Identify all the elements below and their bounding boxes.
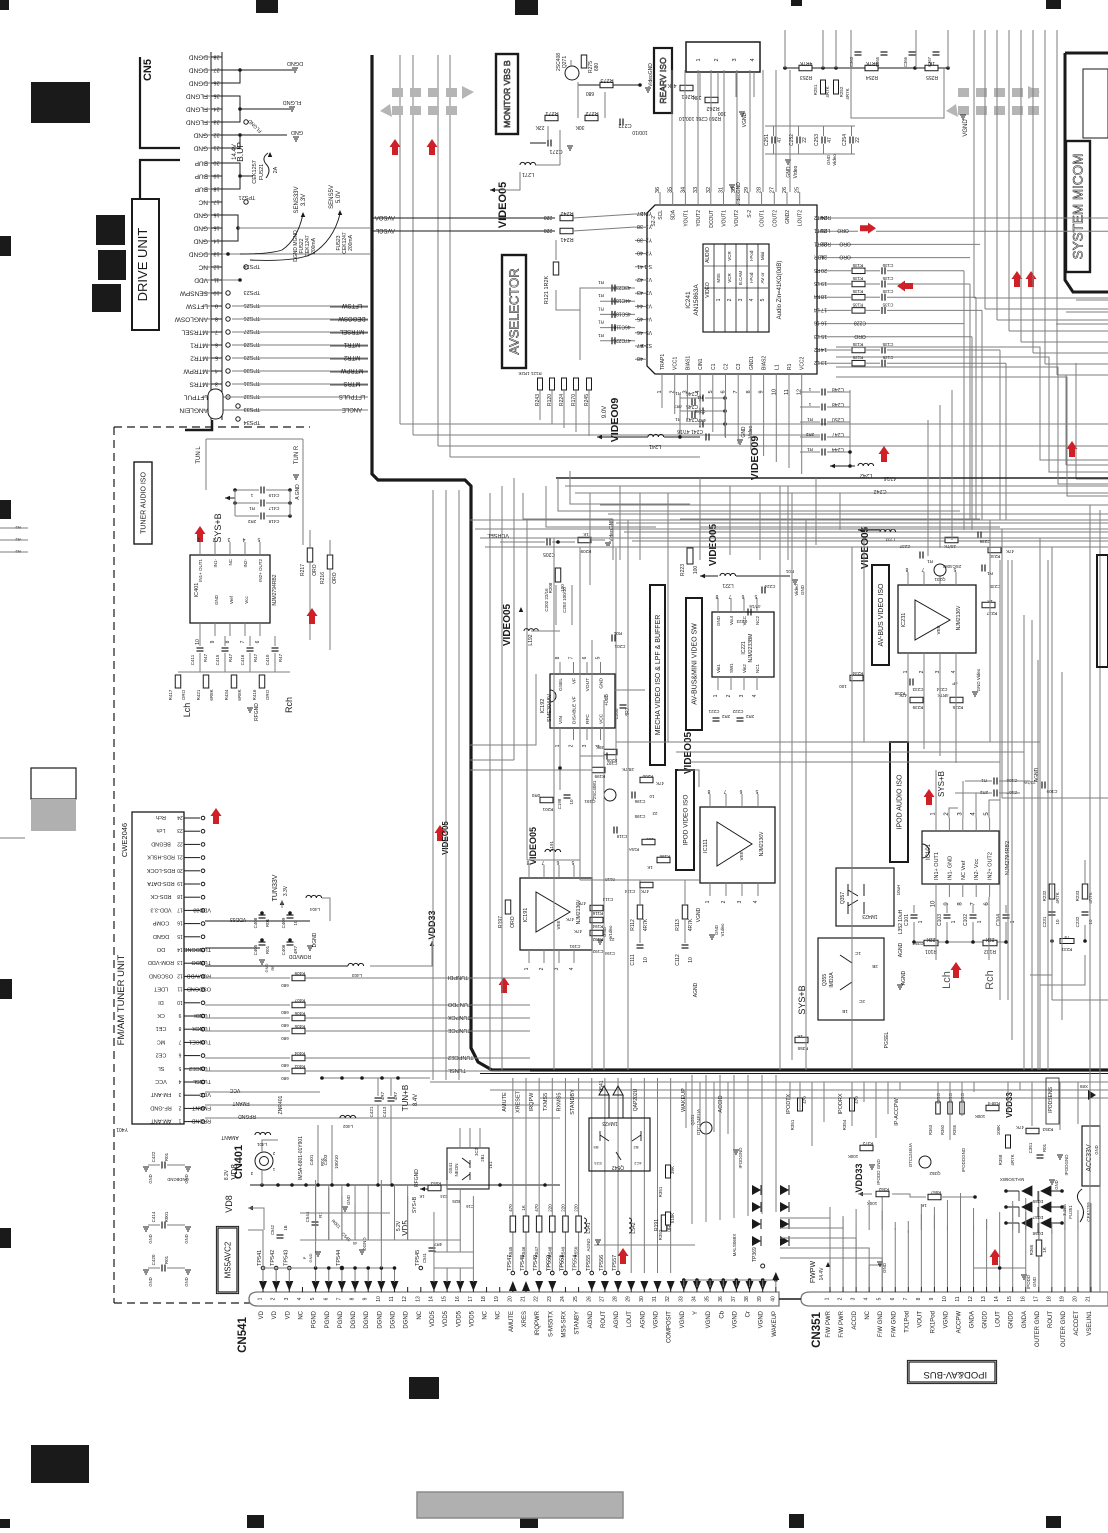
svg-text:NJM2136V: NJM2136V — [956, 605, 962, 630]
svg-text:GND: GND — [1094, 1145, 1099, 1154]
svg-text:4R7K: 4R7K — [688, 918, 694, 931]
svg-text:1M#23: 1M#23 — [602, 1120, 618, 1126]
svg-text:26: 26 — [586, 1296, 592, 1302]
svg-text:11: 11 — [177, 986, 182, 992]
svg-text:IPOD&AV-BUS: IPOD&AV-BUS — [923, 1369, 987, 1380]
svg-text:C196: C196 — [634, 799, 645, 804]
svg-text:23: 23 — [177, 827, 183, 833]
svg-text:18: 18 — [177, 893, 183, 899]
svg-text:4: 4 — [242, 536, 245, 542]
svg-text:13: 13 — [177, 959, 183, 965]
svg-text:R1: R1 — [927, 559, 933, 564]
svg-text:Vout: Vout — [729, 615, 734, 625]
svg-text:AUDIO: AUDIO — [705, 247, 711, 263]
svg-text:VIDEO05: VIDEO05 — [683, 731, 694, 774]
svg-text:GND2: GND2 — [785, 210, 791, 224]
svg-text:38: 38 — [744, 1296, 750, 1302]
svg-text:RF: RF — [270, 965, 275, 971]
svg-text:220: 220 — [560, 1204, 565, 1212]
svg-text:FM/AM TUNER UNIT: FM/AM TUNER UNIT — [116, 955, 127, 1046]
svg-text:VD: VD — [272, 1310, 278, 1319]
svg-text:Q231: Q231 — [934, 577, 946, 582]
svg-text:33: 33 — [678, 1296, 684, 1302]
svg-text:10: 10 — [569, 799, 574, 805]
svg-text:C411: C411 — [190, 654, 195, 665]
svg-text:26: 26 — [213, 80, 219, 86]
svg-text:17: 17 — [468, 1296, 474, 1302]
svg-text:R47: R47 — [228, 653, 233, 662]
svg-text:4R7: 4R7 — [380, 1091, 385, 1100]
svg-text:2: 2 — [569, 744, 575, 747]
svg-text:C205: C205 — [543, 551, 555, 557]
svg-text:6: 6 — [739, 788, 742, 794]
svg-text:ORO: ORO — [839, 254, 851, 260]
svg-text:4R7: 4R7 — [697, 418, 706, 423]
svg-text:V1: V1 — [646, 276, 652, 282]
svg-text:XRES: XRES — [522, 1311, 528, 1327]
svg-text:L192: L192 — [528, 634, 534, 645]
svg-text:NC Vref: NC Vref — [961, 860, 967, 880]
svg-text:7: 7 — [903, 1297, 909, 1300]
svg-text:5: 5 — [215, 355, 218, 361]
svg-text:26: 26 — [782, 187, 788, 193]
svg-text:VEE: VEE — [936, 625, 941, 634]
svg-text:1: 1 — [524, 967, 530, 970]
svg-text:13: 13 — [821, 359, 827, 365]
svg-text:C254: C254 — [842, 134, 848, 146]
svg-text:2: 2 — [714, 58, 720, 61]
svg-text:GNDD: GNDD — [983, 1310, 989, 1328]
svg-text:17: 17 — [821, 306, 827, 312]
svg-text:TP552: TP552 — [546, 1255, 552, 1271]
svg-text:CEK1257: CEK1257 — [252, 160, 258, 184]
svg-text:C135: C135 — [882, 263, 893, 268]
svg-text:ACCID: ACCID — [718, 1095, 724, 1112]
svg-text:VDD33: VDD33 — [427, 910, 437, 939]
svg-text:R409: R409 — [294, 971, 305, 976]
svg-text:10: 10 — [643, 957, 649, 963]
svg-text:TPS33: TPS33 — [244, 406, 261, 412]
svg-text:8: 8 — [555, 656, 561, 659]
svg-text:GND: GND — [148, 1277, 153, 1286]
svg-text:VCR: VCR — [727, 251, 732, 261]
svg-text:1K: 1K — [583, 532, 589, 537]
svg-text:1B: 1B — [283, 1225, 288, 1230]
svg-text:2R2: 2R2 — [745, 714, 754, 719]
svg-text:DGND: DGND — [287, 60, 303, 66]
svg-text:GND1: GND1 — [749, 356, 755, 370]
svg-text:C135: C135 — [882, 302, 893, 307]
svg-text:C241 47/16: C241 47/16 — [677, 428, 703, 434]
svg-text:38: 38 — [637, 223, 643, 229]
svg-text:ANGLE: ANGLE — [342, 406, 362, 412]
svg-text:10: 10 — [293, 920, 298, 926]
svg-text:VD8: VD8 — [230, 1164, 239, 1180]
svg-text:3C2: 3C2 — [474, 1147, 479, 1155]
svg-text:3: 3 — [582, 744, 588, 747]
svg-text:1K: 1K — [921, 1203, 927, 1208]
svg-text:LFTPULS: LFTPULS — [339, 393, 365, 399]
svg-text:ACCPW: ACCPW — [957, 1311, 963, 1334]
svg-text:WAKEUP: WAKEUP — [772, 1311, 778, 1337]
svg-text:21: 21 — [1086, 1296, 1092, 1302]
svg-text:VF: VF — [572, 678, 578, 684]
svg-text:VOUT2: VOUT2 — [734, 210, 740, 227]
svg-text:41: 41 — [637, 263, 643, 269]
svg-text:6: 6 — [215, 342, 218, 348]
svg-text:R224: R224 — [559, 394, 565, 406]
svg-text:680: 680 — [281, 1063, 289, 1068]
svg-text:8: 8 — [178, 1025, 181, 1031]
svg-text:FLGND: FLGND — [283, 99, 302, 105]
svg-text:R354: R354 — [842, 1119, 847, 1130]
svg-text:13: 13 — [415, 1296, 421, 1302]
svg-text:L271: L271 — [522, 171, 534, 177]
svg-text:Q357: Q357 — [840, 892, 846, 904]
svg-text:TP548: TP548 — [520, 1255, 526, 1271]
svg-text:GNDD: GNDD — [1009, 1310, 1015, 1328]
svg-text:20: 20 — [213, 160, 219, 166]
svg-text:1: 1 — [716, 298, 722, 301]
svg-text:7: 7 — [723, 788, 726, 794]
svg-text:VEE: VEE — [739, 851, 744, 860]
svg-text:4R7K: 4R7K — [1055, 892, 1060, 903]
svg-text:R351: R351 — [658, 1186, 663, 1197]
svg-text:PGND: PGND — [338, 1310, 344, 1328]
svg-text:16: 16 — [814, 320, 820, 326]
svg-text:R365: R365 — [1029, 1244, 1034, 1255]
svg-text:CE2: CE2 — [156, 1052, 167, 1058]
svg-text:680: 680 — [281, 1036, 289, 1041]
svg-text:4R7: 4R7 — [393, 1091, 398, 1100]
svg-text:SYSTEM MICOM: SYSTEM MICOM — [1071, 154, 1086, 260]
svg-text:Cb: Cb — [719, 1310, 725, 1318]
svg-text:R237: R237 — [986, 611, 997, 616]
svg-text:VDD33: VDD33 — [230, 916, 246, 922]
svg-text:Vin2: Vin2 — [742, 664, 747, 673]
svg-text:L5: L5 — [814, 280, 820, 286]
svg-text:Q352: Q352 — [929, 1171, 941, 1176]
svg-text:GND: GND — [786, 166, 792, 178]
svg-text:14: 14 — [428, 1296, 434, 1302]
svg-text:AMUTE: AMUTE — [509, 1311, 515, 1332]
svg-text:C541: C541 — [422, 1252, 427, 1263]
svg-text:R120: R120 — [547, 394, 553, 406]
svg-text:L542: L542 — [631, 1222, 637, 1233]
svg-text:L3: L3 — [814, 333, 820, 339]
svg-text:ROUT: ROUT — [1048, 1311, 1054, 1328]
svg-text:Q542: Q542 — [612, 1164, 624, 1170]
svg-text:NJM2233BM: NJM2233BM — [748, 634, 754, 663]
svg-text:5.0V: 5.0V — [336, 191, 342, 203]
svg-text:C3: C3 — [736, 363, 742, 370]
svg-text:32: 32 — [706, 187, 712, 193]
svg-text:23: 23 — [547, 1296, 553, 1302]
svg-text:19: 19 — [821, 280, 827, 286]
svg-text:R101: R101 — [925, 948, 937, 954]
svg-text:IC221: IC221 — [741, 641, 747, 655]
svg-text:DGND: DGND — [364, 1310, 370, 1328]
svg-text:22: 22 — [652, 811, 658, 816]
svg-text:2SC4081: 2SC4081 — [592, 780, 597, 799]
svg-text:13: 13 — [981, 1296, 987, 1302]
svg-text:TUNER AUDIO ISO: TUNER AUDIO ISO — [140, 472, 147, 534]
svg-text:IPODGND: IPODGND — [1064, 1154, 1069, 1176]
svg-text:ROUT2: ROUT2 — [814, 214, 831, 220]
svg-text:VCC1: VCC1 — [673, 356, 679, 370]
svg-text:VIDEO: VIDEO — [705, 282, 711, 298]
svg-text:25: 25 — [213, 93, 219, 99]
svg-text:220: 220 — [544, 214, 553, 220]
svg-text:MALS068X: MALS068X — [732, 1234, 737, 1257]
svg-text:TP553: TP553 — [559, 1255, 565, 1271]
svg-text:V2: V2 — [646, 289, 652, 295]
svg-text:R135: R135 — [852, 355, 863, 360]
svg-text:IN1+ OUT1: IN1+ OUT1 — [198, 559, 203, 582]
svg-text:DCOUT: DCOUT — [709, 210, 715, 228]
svg-text:100: 100 — [839, 684, 847, 689]
svg-text:47K: 47K — [1016, 1125, 1024, 1130]
svg-text:16: 16 — [177, 920, 183, 926]
svg-text:RDS-CK: RDS-CK — [150, 893, 171, 899]
svg-text:Video: Video — [794, 584, 799, 596]
svg-text:VGND: VGND — [759, 1310, 765, 1328]
svg-text:16: 16 — [455, 1296, 461, 1302]
svg-text:11: 11 — [214, 277, 220, 283]
svg-text:R272: R272 — [585, 110, 598, 116]
svg-text:C422: C422 — [151, 1151, 156, 1162]
svg-text:4: 4 — [753, 900, 759, 903]
svg-text:DGND: DGND — [312, 932, 318, 947]
svg-text:470: 470 — [534, 1204, 539, 1212]
svg-text:F/W PWR: F/W PWR — [826, 1310, 832, 1337]
svg-text:AMANT: AMANT — [221, 1134, 239, 1140]
svg-text:VDD5: VDD5 — [430, 1310, 436, 1327]
svg-text:R234: R234 — [852, 671, 863, 676]
svg-text:S-1: S-1 — [644, 263, 652, 269]
svg-text:TUNCE1: TUNCE1 — [189, 1038, 211, 1044]
svg-text:C417: C417 — [268, 506, 279, 511]
svg-text:R1: R1 — [598, 280, 604, 285]
svg-text:MC: MC — [157, 1038, 166, 1044]
svg-text:P: P — [302, 1256, 307, 1259]
svg-text:R273: R273 — [600, 77, 613, 83]
svg-text:FM-ANT: FM-ANT — [150, 1091, 171, 1097]
svg-text:3: 3 — [851, 1297, 857, 1300]
svg-text:Rch: Rch — [984, 970, 996, 990]
svg-text:100: 100 — [693, 566, 699, 575]
svg-text:VOUT: VOUT — [917, 1311, 923, 1328]
svg-text:R102: R102 — [984, 948, 996, 954]
svg-text:R421: R421 — [196, 689, 201, 700]
svg-text:TUNDI: TUNDI — [194, 1012, 211, 1018]
svg-text:39K: 39K — [670, 1166, 675, 1174]
svg-text:33K: 33K — [692, 94, 702, 100]
svg-text:V5: V5 — [646, 329, 652, 335]
svg-text:R233: R233 — [1075, 890, 1080, 901]
svg-text:12: 12 — [968, 1296, 974, 1302]
svg-text:32: 32 — [665, 1296, 671, 1302]
svg-text:5: 5 — [178, 1065, 181, 1071]
svg-text:100K: 100K — [975, 1114, 986, 1119]
svg-text:ROUT: ROUT — [601, 1311, 607, 1328]
svg-text:TP554: TP554 — [573, 1255, 579, 1271]
svg-text:DGND: DGND — [362, 1237, 367, 1251]
svg-text:VIDEO09: VIDEO09 — [609, 398, 621, 443]
svg-text:L241: L241 — [649, 443, 661, 449]
svg-text:R191: R191 — [654, 1219, 660, 1231]
svg-text:C194: C194 — [604, 951, 615, 956]
svg-text:TP547: TP547 — [507, 1255, 513, 1271]
svg-text:SYS+B: SYS+B — [937, 771, 946, 797]
svg-text:1: 1 — [197, 536, 200, 542]
svg-text:R351: R351 — [790, 1119, 795, 1130]
svg-text:AGND: AGND — [898, 942, 904, 957]
svg-text:L191: L191 — [549, 840, 554, 851]
svg-text:47K: 47K — [1006, 549, 1014, 554]
svg-text:R1: R1 — [598, 333, 604, 338]
svg-text:5: 5 — [257, 536, 260, 542]
svg-text:9.0V: 9.0V — [602, 406, 608, 418]
svg-text:R01: R01 — [164, 1152, 169, 1161]
svg-text:22K: 22K — [985, 936, 995, 942]
svg-text:Vcc: Vcc — [244, 596, 249, 604]
svg-text:QAP202U: QAP202U — [633, 1088, 639, 1111]
svg-text:Y1: Y1 — [646, 223, 652, 229]
svg-text:TRAP1: TRAP1 — [660, 354, 666, 370]
svg-text:L403: L403 — [351, 973, 362, 978]
svg-text:RDS-DATA: RDS-DATA — [147, 880, 175, 886]
svg-text:TUNCE2: TUNCE2 — [189, 1065, 211, 1071]
svg-text:C198: C198 — [557, 798, 562, 809]
svg-text:Cr: Cr — [746, 1311, 752, 1317]
svg-text:FWPW: FWPW — [810, 1261, 817, 1284]
svg-text:C114: C114 — [624, 889, 635, 894]
svg-text:4: 4 — [864, 1297, 870, 1300]
svg-text:6R8K: 6R8K — [237, 689, 242, 700]
svg-text:PGND: PGND — [325, 1310, 331, 1328]
svg-text:B25: B25 — [452, 1199, 460, 1204]
svg-text:R358: R358 — [998, 1154, 1003, 1165]
svg-text:6: 6 — [890, 1297, 896, 1300]
svg-text:VDD-3.3: VDD-3.3 — [150, 906, 171, 912]
svg-text:DTC1246UA: DTC1246UA — [908, 1143, 913, 1167]
svg-text:R1: R1 — [598, 306, 604, 311]
svg-text:39: 39 — [757, 1296, 763, 1302]
svg-text:Audio Zin=41KΩ(0dB): Audio Zin=41KΩ(0dB) — [777, 261, 783, 320]
svg-text:28: 28 — [213, 54, 219, 60]
svg-text:TPS14: TPS14 — [244, 263, 261, 269]
svg-text:LOUT1: LOUT1 — [814, 227, 830, 233]
svg-text:VideoGND: VideoGND — [648, 63, 654, 87]
svg-text:17: 17 — [213, 199, 219, 205]
svg-text:R135: R135 — [852, 289, 863, 294]
svg-text:C231: C231 — [1042, 916, 1047, 927]
svg-text:R245: R245 — [584, 394, 590, 406]
svg-text:2: 2 — [539, 967, 545, 970]
svg-text:NC2: NC2 — [755, 616, 760, 625]
svg-text:VD: VD — [285, 1310, 291, 1319]
svg-text:S-MS5TX: S-MS5TX — [548, 1311, 554, 1337]
svg-text:680: 680 — [586, 90, 595, 96]
svg-text:IC231: IC231 — [901, 613, 907, 628]
svg-text:VDD33: VDD33 — [854, 1163, 864, 1192]
svg-text:C103: C103 — [937, 914, 943, 926]
svg-text:27: 27 — [769, 187, 775, 193]
svg-text:GND: GND — [148, 1234, 153, 1243]
svg-text:IPODDGND: IPODDGND — [961, 1147, 966, 1172]
svg-text:IRQPWR: IRQPWR — [535, 1310, 541, 1335]
svg-text:22: 22 — [855, 137, 861, 143]
svg-text:C351: C351 — [1028, 1142, 1033, 1153]
svg-text:9: 9 — [210, 640, 216, 643]
svg-text:11: 11 — [389, 1296, 395, 1301]
svg-text:2C: 2C — [858, 999, 865, 1004]
svg-text:IRQPW: IRQPW — [529, 1092, 535, 1111]
svg-text:45: 45 — [637, 316, 643, 322]
svg-text:1: 1 — [951, 920, 957, 923]
svg-text:TUN33V: TUN33V — [272, 874, 279, 901]
svg-text:100/10: 100/10 — [632, 129, 648, 135]
svg-text:R1: R1 — [787, 363, 793, 370]
svg-text:CE1: CE1 — [156, 1025, 167, 1031]
svg-text:ROUT1: ROUT1 — [814, 240, 831, 246]
svg-text:12: 12 — [402, 1296, 408, 1302]
svg-text:C135: C135 — [882, 355, 893, 360]
svg-text:7: 7 — [215, 329, 218, 335]
svg-text:1: 1 — [1010, 920, 1016, 923]
svg-text:15: 15 — [213, 225, 219, 231]
svg-text:Vin1: Vin1 — [716, 664, 721, 673]
svg-text:45: 45 — [352, 1241, 357, 1246]
svg-text:GND: GND — [1032, 1276, 1037, 1287]
svg-text:31: 31 — [719, 187, 725, 193]
svg-text:40: 40 — [637, 250, 643, 256]
svg-text:NC: NC — [417, 1310, 423, 1319]
svg-text:3: 3 — [215, 381, 218, 387]
svg-text:VGND: VGND — [943, 1310, 949, 1328]
svg-text:VGND: VGND — [706, 1310, 712, 1328]
svg-text:IMD2A: IMD2A — [829, 972, 835, 988]
svg-text:TP555: TP555 — [586, 1255, 592, 1271]
svg-text:L4: L4 — [814, 306, 820, 312]
svg-text:VD: VD — [259, 1310, 265, 1319]
svg-text:3.3V: 3.3V — [301, 194, 307, 206]
svg-text:IPODD GND: IPODD GND — [876, 1159, 881, 1185]
svg-text:680: 680 — [281, 1076, 289, 1081]
svg-text:R253: R253 — [800, 74, 812, 80]
svg-text:24: 24 — [213, 106, 219, 112]
svg-text:IMSA-6801-01Y901: IMSA-6801-01Y901 — [298, 1136, 304, 1180]
svg-text:I-Pod: I-Pod — [749, 272, 754, 283]
svg-text:SME304AV: SME304AV — [547, 694, 553, 722]
svg-text:CWE2046: CWE2046 — [120, 823, 129, 857]
svg-text:680: 680 — [281, 983, 289, 988]
svg-text:C236: C236 — [979, 539, 990, 544]
svg-text:4: 4 — [750, 58, 756, 61]
svg-text:IC191: IC191 — [523, 908, 529, 923]
svg-text:17: 17 — [177, 906, 183, 912]
svg-text:14: 14 — [821, 346, 827, 352]
svg-text:4: 4 — [749, 298, 755, 301]
svg-text:23: 23 — [213, 119, 219, 125]
svg-text:C2: C2 — [724, 363, 730, 370]
svg-text:2A: 2A — [273, 166, 279, 173]
svg-text:MS5AVC2: MS5AVC2 — [223, 1241, 232, 1278]
svg-text:TUN L: TUN L — [196, 446, 202, 464]
svg-text:1: 1 — [705, 900, 711, 903]
svg-text:TPS30: TPS30 — [244, 367, 261, 373]
